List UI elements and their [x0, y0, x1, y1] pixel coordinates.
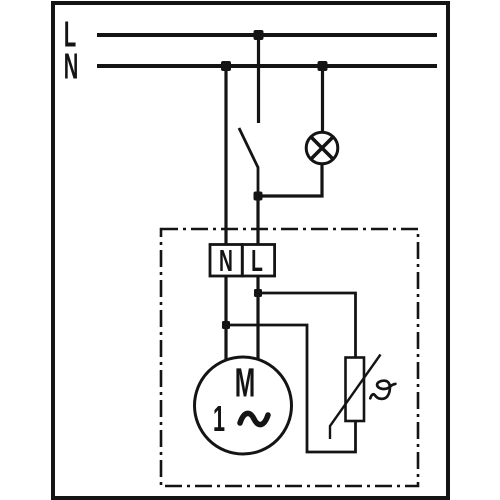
thermistor R1 strike — [330, 355, 381, 440]
node on L bus — [254, 30, 264, 40]
node at switch output — [254, 192, 263, 201]
wire node to thermistor top — [258, 293, 356, 358]
wire terminal N down to motor — [224, 276, 227, 360]
wire switch node to lamp bottom — [258, 163, 322, 196]
lamp E1 cross — [311, 137, 333, 159]
wire N node down to terminal N — [224, 66, 227, 245]
border frame — [53, 3, 448, 498]
node on L motor wire — [254, 289, 262, 297]
wire terminal L down to motor — [256, 276, 259, 359]
svg-text:1: 1 — [213, 399, 225, 439]
enclosure dashed box — [161, 229, 418, 486]
motor M1 circle — [195, 357, 292, 454]
thermistor R1 body — [346, 358, 365, 422]
terminal block L box — [242, 245, 274, 277]
motor tilde — [240, 413, 268, 424]
node on N bus (left) — [221, 61, 231, 71]
terminal block N box — [210, 245, 242, 277]
wire switch node down to terminal L — [256, 196, 259, 245]
thermistor theta label — [370, 381, 395, 399]
node on N bus (right) — [318, 61, 328, 71]
wire L bus — [97, 33, 437, 37]
wire from L node down to switch — [257, 35, 260, 123]
lamp E1 circle — [306, 132, 338, 164]
svg-text:N: N — [64, 48, 79, 87]
wire node to thermistor bottom — [226, 325, 356, 452]
switch S1 blade — [239, 128, 258, 196]
svg-text:M: M — [235, 360, 255, 406]
node on N motor wire — [222, 321, 230, 329]
wire N node down to lamp top — [321, 66, 324, 133]
svg-text:L: L — [251, 245, 263, 279]
wire N bus — [97, 64, 437, 68]
svg-text:N: N — [219, 245, 233, 279]
